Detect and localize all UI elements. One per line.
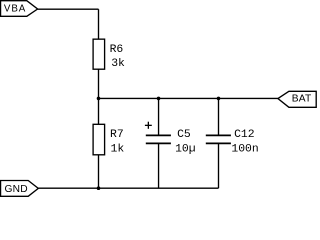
junction node A (97, 97, 101, 101)
svg-text:GND: GND (5, 184, 28, 195)
wire C5 top tap (158, 98, 160, 135)
svg-text:100n: 100n (231, 144, 258, 156)
svg-text:C5: C5 (177, 129, 191, 141)
wire VBA flag to corner (38, 8, 99, 10)
wire C12 bottom to ground bus corner (218, 143, 220, 188)
svg-text:BAT: BAT (292, 94, 312, 105)
net flag VBA (1, 1, 38, 17)
wire top bus node A to BAT (99, 97, 278, 99)
resistor R6 body (93, 39, 105, 69)
resistor R7 body (93, 124, 105, 155)
junction C12 tap (217, 97, 221, 101)
svg-text:1k: 1k (111, 144, 125, 156)
svg-text:3k: 3k (111, 58, 125, 70)
capacitor C5 bottom plate (146, 142, 171, 144)
wire corner down to R6 pin 1 (98, 9, 100, 39)
svg-text:C12: C12 (234, 129, 255, 141)
capacitor C12 top plate (206, 134, 231, 136)
ground flag GND (1, 181, 39, 197)
capacitor C5 top plate (146, 134, 171, 136)
plus polarity mark of C5 (145, 124, 152, 126)
wire R6 pin 2 to node A (98, 69, 100, 124)
svg-text:VBA: VBA (4, 4, 26, 15)
wire C5 bottom to ground bus (158, 143, 160, 188)
port flag BAT (278, 91, 316, 107)
wire R7 pin 2 to ground bus (98, 155, 100, 188)
wire C12 top tap (218, 98, 220, 135)
svg-text:10µ: 10µ (175, 144, 196, 156)
wire ground bus (38, 187, 218, 189)
junction C5 tap (157, 97, 161, 101)
svg-text:R7: R7 (110, 129, 124, 141)
junction ground bus (97, 186, 101, 190)
capacitor C12 bottom plate (206, 142, 231, 144)
svg-text:R6: R6 (110, 44, 124, 56)
